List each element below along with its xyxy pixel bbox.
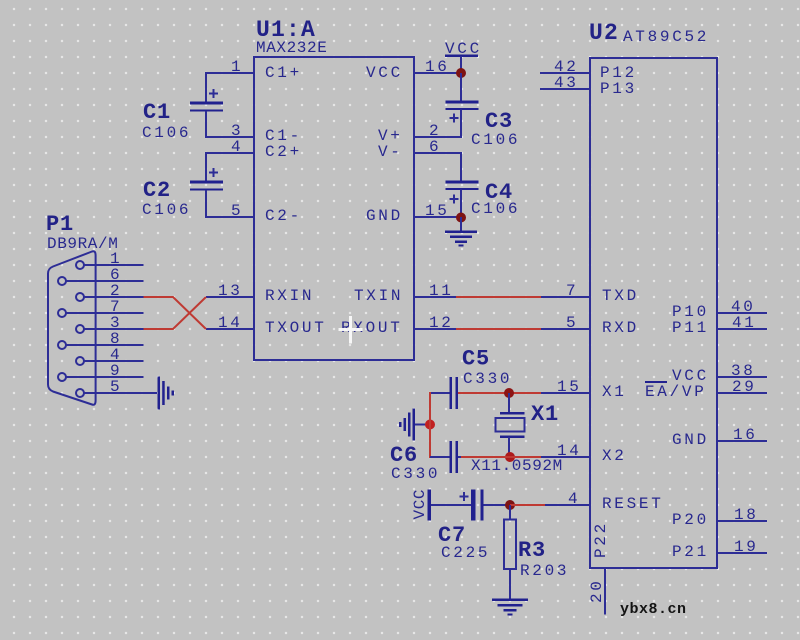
P1 pin 7 circle: [58, 309, 66, 317]
svg-text:14: 14: [218, 314, 243, 332]
svg-text:P1: P1: [46, 212, 74, 237]
svg-text:C2+: C2+: [265, 143, 302, 161]
wire blue to U2 X2: [541, 456, 590, 458]
svg-text:C106: C106: [471, 131, 520, 149]
wire U1.11 to U2 TXD (blue-red-blue): [414, 296, 457, 298]
wire C3 bottom to pin2: [460, 110, 462, 139]
P1 pin 5 circle: [76, 389, 84, 397]
svg-text:C106: C106: [142, 201, 191, 219]
svg-text:X2: X2: [602, 447, 627, 465]
wire C2 bottom to pin5: [205, 190, 207, 218]
svg-text:5: 5: [566, 314, 578, 332]
svg-text:R3: R3: [518, 538, 546, 563]
wire X1 row: corner to C5: [430, 392, 450, 394]
svg-text:TXD: TXD: [602, 287, 639, 305]
svg-text:EA/VP: EA/VP: [645, 383, 707, 401]
svg-text:RXIN: RXIN: [265, 287, 314, 305]
svg-text:13: 13: [218, 282, 243, 300]
wire U2 pin20 stub (bottom): [604, 568, 606, 615]
wire U2 VCC stub: [717, 376, 767, 378]
wire P1 pin7 stub: [66, 312, 144, 314]
wire P1 pin8 stub: [66, 344, 144, 346]
svg-text:16: 16: [425, 58, 450, 76]
wire node to C3 top: [460, 73, 462, 101]
capacitor C3: [446, 101, 479, 123]
svg-text:C106: C106: [471, 200, 520, 218]
wire X2 row: corner to C6: [430, 456, 450, 458]
svg-text:GND: GND: [672, 431, 709, 449]
svg-text:4: 4: [568, 490, 580, 508]
svg-text:U2: U2: [589, 20, 619, 46]
svg-text:AT89C52: AT89C52: [623, 28, 709, 46]
svg-text:6: 6: [429, 138, 441, 156]
wire red vertical through junction: [429, 392, 431, 458]
ground (below C4): [445, 231, 477, 247]
svg-text:41: 41: [732, 314, 757, 332]
wire C4 bottom to node: [460, 190, 462, 218]
wire red crossover P1.2 to U1.14: [144, 297, 207, 329]
wire VCC bar to node: [460, 56, 462, 73]
svg-text:C1+: C1+: [265, 64, 302, 82]
P1 pin 3 circle: [76, 325, 84, 333]
svg-text:C330: C330: [463, 370, 512, 388]
wire pin4 to C2 top: [205, 152, 207, 181]
svg-text:43: 43: [554, 74, 579, 92]
svg-text:5: 5: [231, 202, 243, 220]
wire U1 pin2: [414, 136, 461, 138]
crystal X1: [496, 412, 525, 438]
cursor crosshair: [339, 316, 363, 344]
wire ground stub to junction: [415, 424, 427, 426]
svg-text:RESET: RESET: [602, 495, 664, 513]
wire U2 GND stub: [717, 440, 767, 442]
wire U1 pin3: [206, 136, 254, 138]
wire U2 pin43 stub: [540, 88, 590, 90]
svg-text:18: 18: [734, 506, 759, 524]
IC U2 AT89C52 body: [590, 58, 717, 568]
svg-text:MAX232E: MAX232E: [256, 39, 327, 57]
svg-text:14: 14: [557, 442, 582, 460]
wire U1.12 to U2 RXD (blue-red-blue): [414, 328, 457, 330]
wire R3 to ground: [509, 569, 511, 599]
node junction at ground: [425, 420, 435, 430]
svg-text:C1: C1: [143, 100, 171, 125]
svg-text:5: 5: [110, 378, 122, 396]
wire pin1 to C1 top: [205, 72, 207, 102]
P1 pin 1 circle: [76, 261, 84, 269]
P1 pin 4 circle: [76, 357, 84, 365]
connector P1 DB9RA/M shell: [48, 251, 96, 405]
wire U1 pin5: [206, 216, 254, 218]
wire U2 P10 stub: [717, 312, 767, 314]
wire P1 pin4 stub: [84, 360, 144, 362]
wire red C5 to U2 X1: [458, 392, 542, 394]
wire U1 pin6: [414, 152, 461, 154]
svg-text:P20: P20: [672, 511, 709, 529]
svg-text:P22: P22: [592, 521, 610, 558]
wire node to ground: [460, 217, 462, 231]
node junction above X1: [504, 388, 514, 398]
wire U2 P20 stub: [717, 520, 767, 522]
svg-text:X11.0592M: X11.0592M: [471, 457, 563, 475]
svg-text:29: 29: [732, 378, 757, 396]
ground (left of C5/C6, pointing left): [399, 409, 415, 441]
U2 pin name EA/VP with overline on EA: [645, 381, 707, 401]
node junction at pin15: [456, 213, 466, 223]
capacitor C2: [190, 168, 223, 191]
wire P1 pin9 stub: [66, 376, 144, 378]
wire U1 pin13: [206, 296, 254, 298]
wire blue to U2 X1: [541, 392, 590, 394]
wire U1 pin14: [206, 328, 254, 330]
svg-text:R203: R203: [520, 562, 569, 580]
svg-text:C2-: C2-: [265, 207, 302, 225]
svg-text:V-: V-: [378, 143, 403, 161]
svg-text:VCC: VCC: [445, 40, 482, 58]
P1 pin 6 circle: [58, 277, 66, 285]
svg-text:C225: C225: [441, 544, 490, 562]
svg-text:TXOUT: TXOUT: [265, 319, 327, 337]
wire C6 to red segment: [458, 456, 463, 458]
svg-text:7: 7: [566, 282, 578, 300]
node junction at RESET: [505, 500, 515, 510]
capacitor C5: [450, 377, 459, 409]
wire U2 EA/VP stub: [717, 392, 767, 394]
node junction below X1: [505, 452, 515, 462]
capacitor C4: [446, 181, 479, 204]
wire junction down to crystal top: [508, 393, 510, 413]
wire U2 P21 stub: [717, 552, 767, 554]
svg-text:P13: P13: [600, 80, 637, 98]
wire red C6 to U2 X2: [461, 456, 542, 458]
P1 pin 9 circle: [58, 373, 66, 381]
wire U2 P11 stub: [717, 328, 767, 330]
capacitor C7: [460, 490, 484, 521]
wire U1 pin15: [414, 216, 461, 218]
svg-text:11: 11: [429, 282, 454, 300]
wire crystal bottom to X2 row: [508, 437, 510, 457]
capacitor C6: [450, 441, 459, 473]
svg-text:C330: C330: [391, 465, 440, 483]
wire P1 pin6 stub: [66, 280, 144, 282]
svg-text:12: 12: [429, 314, 454, 332]
P1 pin 2 circle: [76, 293, 84, 301]
svg-text:15: 15: [425, 202, 450, 220]
wire VCC to C7: [431, 504, 471, 506]
wire red junction to U2 RESET: [510, 504, 546, 506]
svg-text:X1: X1: [602, 383, 627, 401]
wire P1 pin2 stub: [84, 296, 144, 298]
power symbol VCC (top): [445, 40, 482, 58]
svg-text:C106: C106: [142, 124, 191, 142]
ground (at P1 pin5, pointing right): [158, 377, 175, 410]
wire U1 pin16: [414, 72, 461, 74]
svg-text:4: 4: [231, 138, 243, 156]
wire U2 pin42 stub: [540, 72, 590, 74]
wire C7 to junction: [484, 504, 511, 506]
wire C1 bottom to pin3: [205, 111, 207, 138]
wire red crossover P1.3 to U1.13: [144, 297, 207, 329]
wire U1 pin4: [206, 152, 254, 154]
svg-text:16: 16: [733, 426, 758, 444]
wire pin6 to C4 top: [460, 152, 462, 181]
wire blue to U2 RESET: [545, 504, 590, 506]
P1 pin 8 circle: [58, 341, 66, 349]
power symbol VCC (rotated, at C7): [411, 489, 431, 521]
svg-text:1: 1: [231, 58, 243, 76]
node junction at VCC/pin16: [456, 68, 466, 78]
svg-text:P11: P11: [672, 319, 709, 337]
svg-text:C2: C2: [143, 178, 171, 203]
svg-text:VCC: VCC: [411, 489, 429, 520]
op-amp U1 MAX232E body: [254, 57, 414, 360]
wire P1 pin3 stub: [84, 328, 144, 330]
svg-text:C5: C5: [462, 347, 490, 372]
wire P1 pin1 stub: [84, 264, 144, 266]
ground (below R3): [492, 599, 528, 616]
wire junction down to R3: [509, 505, 511, 520]
svg-text:TXIN: TXIN: [354, 287, 403, 305]
svg-text:X1: X1: [531, 402, 559, 427]
resistor R3: [504, 520, 516, 570]
svg-text:ybx8.cn: ybx8.cn: [620, 601, 687, 618]
svg-text:20: 20: [588, 578, 606, 603]
svg-text:RXD: RXD: [602, 319, 639, 337]
svg-text:P21: P21: [672, 543, 709, 561]
capacitor C1: [190, 89, 223, 112]
wire U1 pin1: [206, 72, 254, 74]
svg-text:VCC: VCC: [366, 64, 403, 82]
svg-text:19: 19: [734, 538, 759, 556]
svg-text:DB9RA/M: DB9RA/M: [47, 235, 118, 253]
wire P1 pin5 to ground: [84, 392, 157, 394]
svg-text:GND: GND: [366, 207, 403, 225]
svg-text:15: 15: [557, 378, 582, 396]
